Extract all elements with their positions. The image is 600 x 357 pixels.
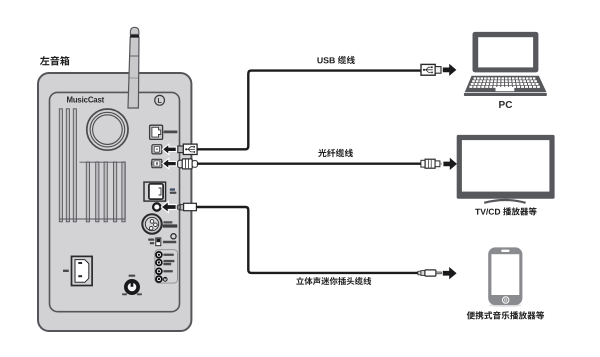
XLR label — [163, 221, 172, 223]
arrow to TV — [443, 158, 457, 170]
L/R LINE box — [144, 182, 166, 201]
button labels — [163, 254, 173, 256]
heatsink right fins — [86, 162, 125, 222]
wireless indicator — [171, 234, 176, 239]
TV stand — [505, 199, 508, 201]
woofer circle — [87, 109, 128, 150]
phone shadow — [489, 304, 522, 307]
antenna — [128, 27, 139, 108]
USB cable — [197, 71, 421, 150]
stereo mini cable — [196, 207, 418, 273]
heatsink outline lines — [59, 162, 125, 219]
L badge — [155, 95, 165, 105]
arrow to USB port — [162, 144, 176, 154]
TV body — [457, 135, 555, 199]
optical plug at TV — [421, 159, 442, 168]
speaker back enclosure outer — [38, 73, 191, 331]
AC IN label — [63, 270, 69, 272]
phone screen — [491, 254, 519, 295]
AC IN inlet — [72, 256, 93, 285]
USB plug at speaker — [178, 144, 197, 154]
rear button group — [155, 250, 178, 283]
PC keyboard keys — [474, 77, 476, 79]
PC laptop screen — [473, 32, 539, 73]
AUTO/OFF switch — [148, 239, 154, 241]
label portable music player — [467, 311, 544, 319]
svg-text:PC: PC — [499, 100, 513, 111]
USB port — [152, 145, 162, 154]
label: left speaker 左音箱 — [40, 56, 69, 66]
NETWORK label — [164, 131, 178, 134]
speaker rear panel inner — [50, 92, 180, 311]
phone home button — [502, 296, 509, 303]
AUX mini jack — [153, 203, 160, 210]
USB plug at PC — [421, 64, 441, 75]
optical port — [152, 159, 162, 167]
label USB cable — [317, 56, 354, 64]
optical plug at speaker — [178, 159, 198, 169]
volume knob — [129, 275, 136, 277]
label TV/CD — [475, 207, 536, 215]
mini plug at player — [418, 270, 441, 276]
optical cable — [197, 162, 421, 164]
arrow to PC — [443, 64, 457, 76]
mini plug at speaker — [177, 203, 196, 210]
PC touchpad — [496, 87, 515, 91]
WIRELESS LAN label — [163, 241, 176, 243]
phone speaker slot — [501, 250, 509, 252]
label optical cable — [318, 149, 353, 157]
svg-text:MusicCast: MusicCast — [66, 95, 104, 104]
XLR speaker connector — [142, 214, 161, 233]
arrow to player — [443, 267, 457, 279]
NETWORK port — [150, 125, 163, 139]
L/R LINE label — [170, 188, 175, 190]
arrow to optical port — [162, 159, 176, 169]
PC laptop keyboard deck — [465, 76, 547, 92]
label stereo mini plug cable — [296, 277, 371, 285]
TV screen — [462, 140, 550, 192]
PC base bar — [464, 93, 547, 96]
svg-text:L: L — [157, 98, 162, 105]
phone body — [488, 247, 522, 305]
heatsink left fins — [59, 109, 76, 222]
arrow to AUX jack — [161, 201, 176, 212]
